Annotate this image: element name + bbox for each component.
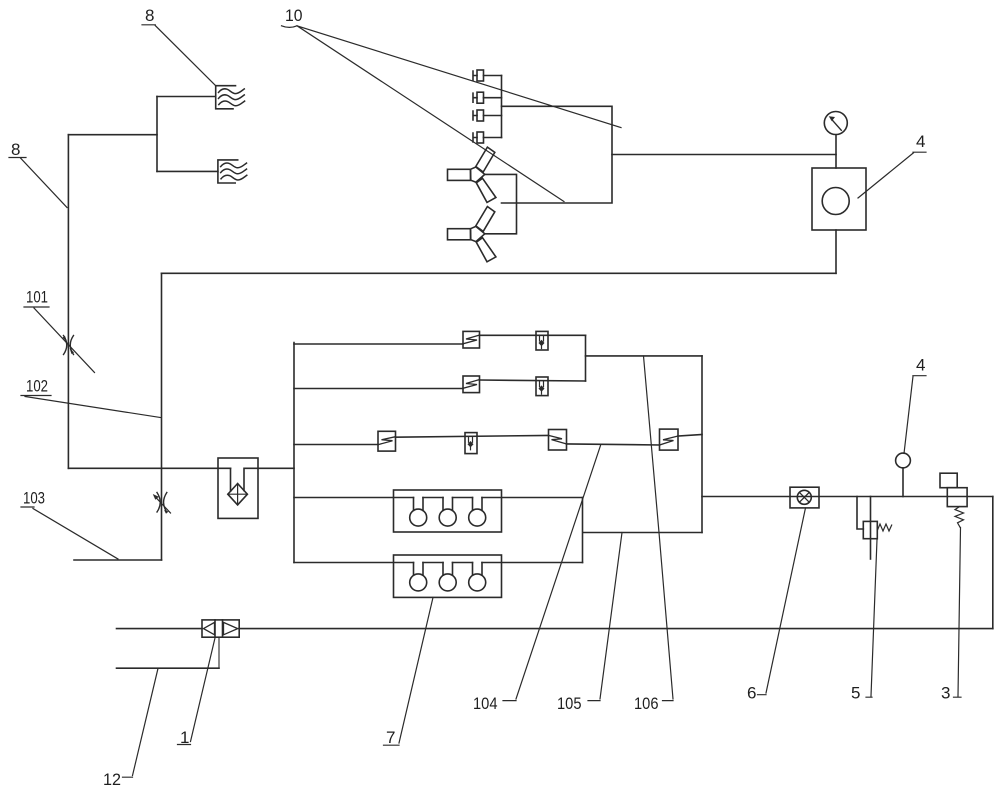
wire A2 to B2 to bracket xyxy=(480,380,586,381)
valve A2 element xyxy=(463,380,480,389)
valve 1 dividers xyxy=(215,620,223,637)
check valve B2 element xyxy=(539,381,545,394)
svg-text:103: 103 xyxy=(23,489,45,508)
valve V3 element xyxy=(549,435,567,444)
wire gauge to pump stem xyxy=(835,135,837,168)
svg-text:8: 8 xyxy=(11,140,20,159)
svg-text:105: 105 xyxy=(557,694,582,713)
engine block 7b cylinder circles xyxy=(410,574,427,591)
heat exchanger 8b bracket xyxy=(218,160,247,183)
manifold right edge xyxy=(701,356,703,533)
valve 3 body xyxy=(947,488,967,507)
valve 6 body xyxy=(790,487,819,508)
wire filter outlet to distribution bus xyxy=(258,467,294,469)
wire HX1 feed xyxy=(157,96,216,98)
leader 102 xyxy=(21,396,161,418)
valve V4 body xyxy=(660,429,679,450)
svg-text:6: 6 xyxy=(747,684,756,703)
injector 10a xyxy=(473,70,502,81)
filter diamond cross xyxy=(228,484,248,505)
wire left distribution bus xyxy=(293,343,295,563)
svg-text:7: 7 xyxy=(386,728,395,747)
engine block 7b channels xyxy=(414,563,483,576)
svg-text:12: 12 xyxy=(103,770,121,789)
wire HX2 feed xyxy=(157,170,218,172)
leader 12 xyxy=(123,668,159,777)
wire row2 bus to valve A2 xyxy=(294,388,463,390)
svg-text:104: 104 xyxy=(473,694,498,713)
valve 3 pilot box xyxy=(940,473,957,488)
wire row4 segments xyxy=(294,497,583,499)
engine block 7a cylinder circles xyxy=(410,509,427,526)
svg-text:101: 101 xyxy=(26,288,48,307)
svg-text:8: 8 xyxy=(145,6,154,25)
wire row1 bus to valve A1 xyxy=(294,343,463,345)
check valve V2 body xyxy=(465,433,477,454)
filter inner channel walls xyxy=(231,468,259,491)
throttle 103 arrow xyxy=(155,496,171,513)
leader 3 xyxy=(954,528,962,698)
wire chamber outlet xyxy=(612,154,836,156)
svg-text:102: 102 xyxy=(26,377,48,396)
valve 6 circle-cross xyxy=(797,490,811,504)
nozzle 10e xyxy=(448,147,496,202)
wire V4 to manifold right edge xyxy=(678,435,702,437)
gauge 4a needle xyxy=(832,119,842,130)
check valve B1 body xyxy=(536,331,548,350)
wire rows1-2 right bracket xyxy=(585,335,587,381)
valve 3 spring xyxy=(955,507,964,528)
valve V1 body xyxy=(378,431,396,451)
valve V1 element xyxy=(378,437,396,445)
leader 1 xyxy=(178,638,216,745)
check valve V2 element xyxy=(468,437,474,450)
svg-text:3: 3 xyxy=(941,684,950,703)
valve 5 body xyxy=(863,521,877,538)
wire bottom main line xyxy=(117,628,993,630)
check valve B2 body xyxy=(536,377,548,396)
injector 10b xyxy=(473,92,502,103)
filter diamond element xyxy=(228,484,248,505)
wire right corner drop xyxy=(992,497,994,629)
valve 1 left triangle xyxy=(204,622,215,634)
gauge 4b circle xyxy=(896,453,911,468)
leader 4 top xyxy=(858,152,926,198)
engine block 7a channels xyxy=(414,498,483,511)
leader 5 xyxy=(866,540,877,698)
valve 1 right triangle xyxy=(224,622,238,634)
pump 4 body xyxy=(812,168,866,230)
heat exchanger 8b waves xyxy=(221,163,247,180)
wire manifold to right corner xyxy=(702,496,993,498)
valve A2 body xyxy=(463,376,480,393)
manifold bottom edge xyxy=(583,532,702,534)
wire to filter inlet xyxy=(68,467,230,469)
pump 4 circle xyxy=(822,188,849,215)
svg-text:5: 5 xyxy=(851,684,860,703)
wire A1 to B1 to bracket xyxy=(480,334,586,336)
leader 8 top xyxy=(142,25,216,86)
leader 10 xyxy=(282,26,622,202)
svg-text:4: 4 xyxy=(916,356,925,375)
wire row5 segments xyxy=(294,562,583,564)
wire stub 103 xyxy=(74,559,162,561)
throttle 103 arcs xyxy=(157,493,167,513)
valve A1 element xyxy=(463,335,480,344)
engine block 7b body xyxy=(394,555,502,597)
injector 10c xyxy=(473,110,502,121)
valve 5 spring xyxy=(877,524,891,531)
heat exchanger 8a bracket xyxy=(216,86,236,109)
wire V1 to V2 to V3 xyxy=(396,435,549,437)
leader 4 right xyxy=(904,376,926,454)
wire row3 bus to valve V1 xyxy=(294,444,378,446)
wire HX branch vertical xyxy=(156,97,158,172)
throttle 101 arcs xyxy=(64,336,74,355)
valve 1 body xyxy=(202,620,239,637)
gauge 4b stem xyxy=(902,468,904,497)
wire lower stub line 12 xyxy=(117,667,220,669)
leader 7 xyxy=(384,598,434,746)
leader 106 xyxy=(644,356,674,701)
leader 104 xyxy=(503,446,601,701)
wire HX branch to left main xyxy=(68,134,157,136)
leader 101 xyxy=(24,307,95,373)
injector 10d xyxy=(473,132,502,143)
svg-text:106: 106 xyxy=(634,694,659,713)
valve V3 body xyxy=(549,430,567,451)
manifold left vertical xyxy=(582,498,584,563)
valve A1 body xyxy=(463,331,480,348)
wire pump bottom stem xyxy=(835,230,837,273)
wire V3 to V4 xyxy=(567,444,660,445)
valve V4 element xyxy=(660,436,679,445)
valve 5 pilot line xyxy=(857,497,863,530)
wire injector bus xyxy=(501,76,503,138)
valve 5 main line xyxy=(870,497,872,560)
throttle 101 leader arrowheads xyxy=(63,336,75,354)
leader 105 xyxy=(588,533,622,701)
svg-text:10: 10 xyxy=(285,6,303,25)
wire left main vertical xyxy=(67,135,69,469)
manifold top edge xyxy=(586,355,703,357)
filter body xyxy=(218,458,258,518)
engine block 7a body xyxy=(394,490,502,532)
heat exchanger 8a waves xyxy=(219,89,245,106)
leader 8 left xyxy=(9,158,67,208)
wire line 102 vertical xyxy=(161,273,163,560)
wire nozzle links and bus xyxy=(485,174,517,233)
leader 6 xyxy=(758,508,806,695)
gauge 4a circle xyxy=(824,112,847,135)
svg-text:4: 4 xyxy=(916,132,925,151)
nozzle 10f xyxy=(448,207,496,262)
valve 1 stem xyxy=(218,637,220,668)
chamber body open-left xyxy=(502,106,613,203)
wire top long return line xyxy=(162,272,837,274)
check valve B1 element xyxy=(539,335,545,348)
leader 103 xyxy=(21,507,118,559)
